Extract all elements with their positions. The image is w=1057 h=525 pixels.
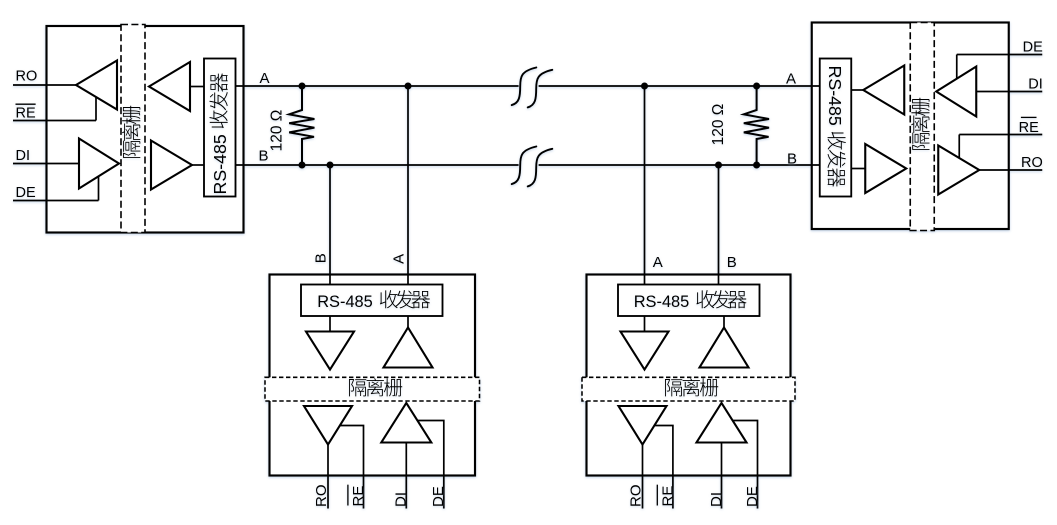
wire A drop (node to bus A) (644, 86, 646, 285)
svg-text:120 Ω: 120 Ω (268, 110, 285, 152)
junction: R2 bottom on bus B (753, 162, 760, 169)
svg-text:B: B (259, 148, 269, 165)
bottom-left isolated node block U3 (270, 275, 476, 476)
buffer: bus-side receiver triangle (right U2) (865, 144, 906, 193)
wire A drop (node to bus A) (407, 86, 409, 285)
isolation barrier strip (right U2) (910, 23, 934, 231)
text: isolation barrier (U3) (349, 379, 366, 396)
svg-text:A: A (390, 254, 407, 264)
svg-text:A: A (653, 254, 663, 271)
wire: bus line A, left segment (236, 85, 519, 87)
junction: R1 top on bus A (299, 83, 306, 90)
buffer: driver input triangle (left U1) (79, 139, 119, 189)
buffer: bus-side driver triangle (right U2) (863, 66, 904, 115)
svg-text:RO: RO (16, 69, 38, 85)
svg-text:RS-485: RS-485 (825, 66, 845, 126)
wire RE enable to receiver (right U2) (958, 135, 960, 159)
wire RE enable (654, 426, 673, 509)
RS-485 transceiver box (right U2) (820, 59, 852, 197)
wire RE (left U1) (13, 120, 96, 122)
buffer: bus-side receiver triangle (left U1) (149, 62, 190, 111)
wire DI (405, 443, 407, 509)
wire transceiver to driver (bus side) (723, 316, 725, 328)
text: isolation barrier (left U1, vertical) (122, 106, 140, 158)
isolation barrier strip (left U1) (121, 25, 145, 233)
svg-text:RO: RO (313, 485, 330, 508)
wire DE enable to driver (right U2) (956, 55, 958, 79)
wire: bus line A, right segment (539, 85, 820, 87)
wire transceiver to receiver (bus side) (329, 316, 331, 332)
svg-text:RO: RO (627, 485, 644, 508)
svg-text:RE: RE (350, 486, 367, 507)
svg-text:DI: DI (708, 492, 725, 507)
isolation barrier strip (U3) (265, 377, 480, 401)
wire DE enable (733, 421, 758, 509)
wire RE enable (340, 426, 364, 509)
wire B drop (node to bus B) (718, 165, 720, 285)
svg-text:DE: DE (16, 185, 36, 201)
svg-text:DE: DE (430, 486, 447, 507)
buffer: bus-side receiver triangle (U3) (306, 332, 354, 370)
junction: drop A tap (middle-right node) on bus A (641, 83, 648, 90)
svg-text:DI: DI (393, 492, 410, 507)
buffer: driver input triangle (right U2) (936, 67, 976, 117)
wire driver A-side (left U1) (192, 164, 204, 166)
wire driver B-side (right U2) (851, 89, 863, 91)
resistor R2 (right termination) 120 Ohm (744, 86, 769, 165)
isolation barrier strip (U4) (582, 377, 795, 401)
wire transceiver to receiver (bus side) (644, 316, 646, 332)
svg-text:DE: DE (744, 486, 761, 507)
svg-text:B: B (787, 151, 797, 168)
junction: R2 top on bus A (753, 83, 760, 90)
wire DE enable to driver (left U1) (98, 176, 100, 200)
buffer: receiver output triangle (right U2) (938, 146, 979, 195)
svg-text:RS-485: RS-485 (210, 134, 230, 194)
buffer: bus-side driver triangle (left U1) (151, 141, 192, 190)
RS-485 transceiver box (U4) (618, 285, 760, 317)
wire RO (642, 445, 644, 509)
wire DI (721, 443, 723, 509)
svg-text:RS-485: RS-485 (317, 293, 373, 311)
svg-text:DI: DI (1028, 77, 1043, 93)
svg-text:RE: RE (16, 106, 36, 122)
wire DI (right U2) (976, 91, 1042, 93)
svg-text:RE: RE (1019, 120, 1039, 136)
bottom-right isolated node block U4 (587, 275, 791, 476)
bus break symbol on line B (512, 147, 537, 185)
bus break symbol on line A (512, 68, 537, 106)
right isolated node: logic-side block U2 (812, 23, 1009, 230)
svg-text:DI: DI (16, 148, 31, 164)
text: isolation barrier (U4) (665, 379, 682, 396)
text: RS-485 transceiver (right U2, vertical) (825, 66, 846, 187)
buffer: driver input triangle (U4) (697, 403, 747, 443)
svg-text:B: B (313, 253, 330, 263)
wire DI (left U1) (13, 163, 79, 165)
junction: drop B tap (middle-right node) on bus B (715, 162, 722, 169)
junction: drop A tap (middle-left node) on bus A (405, 83, 412, 90)
resistor R1 (left termination) 120 Ohm (289, 86, 314, 165)
text: isolation barrier (right U2, vertical) (911, 98, 929, 150)
wire DE (left U1) (13, 200, 99, 202)
wire transceiver to driver (bus side) (407, 316, 409, 328)
buffer: bus-side receiver triangle (U4) (621, 332, 669, 370)
wire RO (left U1) (13, 84, 76, 86)
RS-485 transceiver box (U3) (301, 285, 443, 317)
wire RE (right U2) (959, 134, 1042, 136)
text: RS-485 transceiver (left U1, vertical) (209, 73, 230, 194)
wire B drop (node to bus B) (329, 165, 331, 285)
buffer: receiver output triangle (U3) (304, 406, 352, 445)
wire: bus line B, right segment (539, 164, 820, 166)
wire RO (right U2) (979, 169, 1042, 171)
svg-text:A: A (786, 71, 796, 88)
svg-text:RO: RO (1021, 155, 1043, 171)
wire receiver B-side (right U2) (851, 168, 865, 170)
buffer: bus-side driver triangle (U3) (384, 328, 433, 368)
wire: bus line B, left segment (236, 164, 519, 166)
svg-text:120 Ω: 120 Ω (710, 104, 727, 146)
left isolated node: logic-side block U1 (47, 26, 244, 233)
wire RE enable to receiver (left U1) (95, 97, 97, 121)
buffer: driver input triangle (U3) (381, 403, 431, 443)
wire DE (right U2) (957, 54, 1043, 56)
wire RO (327, 445, 329, 509)
RS-485 transceiver box (left U1) (204, 59, 236, 197)
svg-text:RS-485: RS-485 (634, 293, 690, 311)
svg-text:A: A (260, 70, 270, 87)
junction: drop B tap (middle-left node) on bus B (327, 162, 334, 169)
svg-text:RE: RE (659, 486, 676, 507)
wire DE enable (417, 421, 443, 509)
buffer: receiver output triangle (left U1) (76, 61, 117, 110)
buffer: receiver output triangle (U4) (619, 406, 667, 445)
buffer: bus-side driver triangle (U4) (700, 328, 749, 368)
wire receiver A-side (left U1) (190, 86, 204, 88)
svg-text:B: B (727, 254, 737, 271)
junction: R1 bottom on bus B (299, 162, 306, 169)
svg-text:DE: DE (1023, 40, 1043, 56)
